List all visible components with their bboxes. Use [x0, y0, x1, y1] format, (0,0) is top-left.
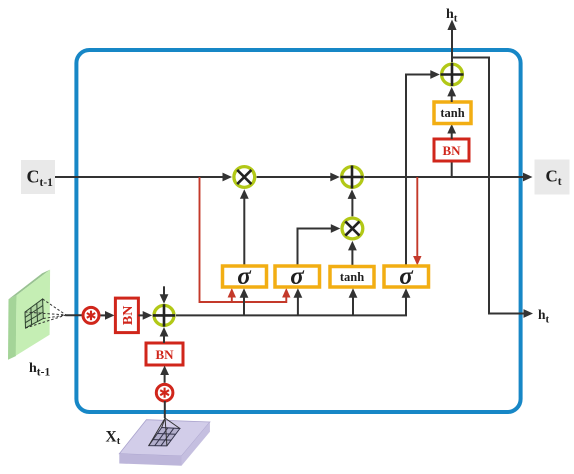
- conv projection lines h_t-1: [25, 299, 66, 328]
- wire BN1 to adder P3: [138, 311, 152, 320]
- wire bus stub to sigma1: [240, 288, 249, 315]
- wire conv2 to BN2: [160, 366, 169, 383]
- wire conv1 to BN1: [101, 311, 115, 320]
- wire bias stub into adder P3: [160, 286, 169, 304]
- svg-text:BN: BN: [442, 143, 461, 158]
- red peephole wire from C_t-1 to sigma1 and sigma2: [200, 177, 291, 302]
- node C_t-1: [21, 160, 55, 194]
- conv kernel grid on X_t: [149, 428, 180, 446]
- wire adder P2 up to h_t top output: [447, 20, 456, 63]
- input feature map h_t-1 slab: [8, 270, 50, 360]
- wire h_t-1 apex to conv1: [65, 314, 82, 316]
- svg-text:ht: ht: [538, 307, 550, 326]
- wire tanh2 to adder P2: [447, 87, 456, 102]
- wire tanh1 output to multiplier X2: [348, 241, 357, 266]
- cell body rounded border: [76, 50, 520, 412]
- gate sigma2 box: [275, 263, 320, 290]
- wire BN3 to tanh2: [447, 124, 456, 139]
- wire bus stub to sigma2: [294, 288, 303, 315]
- wire sigma1 output to multiplier X1: [240, 189, 249, 265]
- wire h_t branch to right output: [452, 58, 533, 318]
- wire bus stub to tanh1: [349, 288, 358, 315]
- wire C_t-1 to multiplier: [55, 173, 232, 182]
- convolution operator conv2: [156, 384, 173, 401]
- svg-text:tanh: tanh: [340, 270, 364, 284]
- red peephole wire from C_t to sigma3: [413, 177, 421, 266]
- adder P2 (hidden output combine): [441, 63, 464, 86]
- wire C line branch up to BN3: [451, 160, 453, 177]
- wire sigma2 output to multiplier X2: [298, 224, 341, 265]
- wire sigma3 output to adder P2: [406, 70, 440, 265]
- svg-text:BN: BN: [155, 347, 174, 362]
- tanh2 box (output activation): [434, 102, 471, 124]
- wire adder P1 to C_t: [364, 173, 532, 182]
- conv kernel grid on h_t-1: [25, 299, 43, 328]
- conv projection lines X_t: [149, 418, 180, 446]
- wire bus from adder P3 to gates: [176, 288, 410, 315]
- svg-text:σ: σ: [399, 263, 414, 290]
- wire BN2 to adder P3: [160, 327, 169, 343]
- batchnorm BN1 box (rotated): [115, 298, 138, 333]
- node h_t-1 label: [29, 361, 50, 379]
- svg-text:Xt: Xt: [106, 429, 121, 448]
- wire conv2 down to X_t apex: [164, 401, 166, 418]
- adder P1 on cell line: [341, 166, 364, 189]
- gate sigma1 box: [223, 263, 267, 290]
- svg-text:σ: σ: [290, 263, 305, 290]
- gate tanh1 box: [330, 267, 374, 288]
- wire multiplier X1 to adder P1: [257, 173, 340, 182]
- svg-text:BN: BN: [121, 306, 136, 325]
- convolution operator conv1: [83, 307, 99, 323]
- multiplier X2 (input gate product): [342, 218, 363, 239]
- svg-text:ht: ht: [446, 7, 458, 25]
- batchnorm BN3 box: [434, 139, 469, 161]
- node C_t: [535, 160, 570, 195]
- wire multiplier X2 to adder P1: [348, 189, 357, 216]
- svg-text:tanh: tanh: [440, 106, 464, 120]
- node X_t label: [106, 429, 121, 448]
- adder P3 (gate preactivation sum): [153, 304, 175, 326]
- gate sigma3 box: [384, 263, 429, 290]
- node h_t right label: [538, 307, 550, 326]
- node h_t top label: [446, 7, 458, 25]
- svg-text:ht-1: ht-1: [29, 361, 50, 379]
- input feature map X_t slab: [119, 420, 210, 466]
- batchnorm BN2 box: [146, 343, 183, 365]
- multiplier X1 (forget gate product): [234, 167, 255, 188]
- svg-text:σ: σ: [237, 263, 252, 290]
